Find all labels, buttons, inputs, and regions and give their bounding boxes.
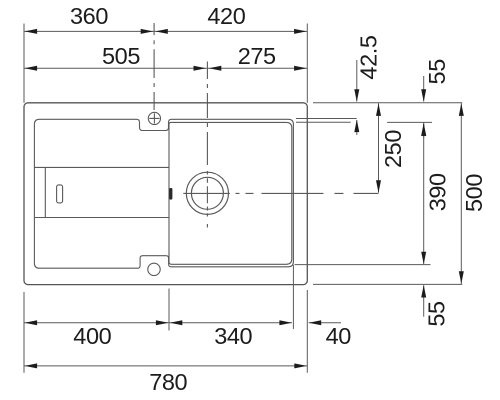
- centerline tap vertical: [153, 23, 155, 110]
- drain inner circle: [191, 177, 223, 209]
- arrow 390 bottom: [421, 252, 426, 265]
- tap hole circle: [148, 112, 160, 124]
- arrow 390 top: [421, 123, 426, 135]
- extension line bowl left bottom: [168, 289, 170, 331]
- arrow 360 right: [141, 29, 154, 34]
- arrow 500 bottom: [459, 271, 464, 284]
- arrow 340 left: [170, 320, 183, 325]
- extension line bowl bottom right: [295, 264, 431, 266]
- dimension line 55 top: [423, 76, 425, 138]
- inner depression edge with tap and hole notches: [34, 119, 293, 268]
- dimension line 505/275: [24, 67, 307, 69]
- drainer board bottom line: [34, 217, 169, 219]
- arrow 275 left: [209, 66, 222, 71]
- dimension line 780: [24, 365, 307, 367]
- extension line bowl top right: [296, 121, 432, 123]
- arrow 505 right: [194, 66, 207, 71]
- arrow 420 right: [294, 29, 307, 34]
- svg-text:505: 505: [102, 43, 140, 69]
- arrow 420 left: [155, 29, 168, 34]
- arrow 780 right: [294, 363, 307, 368]
- svg-text:420: 420: [207, 3, 245, 29]
- tap hole cross: [149, 113, 159, 123]
- drainer board left edge: [44, 167, 46, 217]
- arrow 400 left: [25, 320, 37, 325]
- drainer board top line: [34, 166, 169, 168]
- svg-text:55: 55: [423, 301, 449, 327]
- extension line bowl right bottom: [292, 265, 294, 329]
- drainer board slot: [57, 185, 63, 203]
- extension line top edge right: [313, 102, 462, 104]
- svg-text:55: 55: [424, 59, 450, 85]
- centerline bowl vertical: [206, 62, 208, 228]
- svg-text:42.5: 42.5: [356, 35, 382, 79]
- svg-text:780: 780: [149, 369, 187, 395]
- dimension line 390: [423, 123, 425, 264]
- svg-text:275: 275: [238, 43, 276, 69]
- svg-text:390: 390: [424, 173, 450, 211]
- extension line left bottom: [23, 292, 25, 373]
- svg-text:250: 250: [380, 130, 406, 168]
- svg-text:400: 400: [73, 323, 111, 349]
- bottom hole circle: [148, 263, 160, 275]
- bowl rim: [169, 122, 292, 264]
- arrow 42.5 lower: [354, 120, 359, 133]
- dimension line 500: [460, 103, 462, 284]
- arrow 55top lower: [421, 123, 426, 135]
- dimension line 40 tail: [309, 322, 341, 324]
- dimension line 42.5: [356, 60, 358, 135]
- arrow 505 left: [25, 66, 37, 71]
- arrow 340 right: [279, 320, 292, 325]
- arrow 275 right: [294, 66, 307, 71]
- outer sink outline: [24, 103, 307, 285]
- centerline bowl horizontal: [183, 192, 378, 194]
- arrow 42.5 upper: [354, 89, 359, 102]
- drain outer circle: [186, 172, 228, 214]
- svg-text:360: 360: [70, 3, 108, 29]
- arrow 780 left: [25, 363, 37, 368]
- arrow 250 bottom: [376, 180, 381, 193]
- svg-text:40: 40: [326, 323, 352, 349]
- arrow 400 right: [156, 320, 169, 325]
- extension line right bottom: [306, 290, 308, 373]
- arrow 500 top: [459, 103, 464, 116]
- extension line left top: [23, 24, 25, 103]
- svg-text:500: 500: [461, 174, 487, 212]
- arrow 250 top: [376, 103, 381, 116]
- arrow 55bottom: [421, 285, 426, 298]
- dimension line 55 bottom: [423, 285, 425, 317]
- arrow 40: [309, 320, 322, 325]
- extension line right top: [306, 24, 308, 103]
- arrow 360 left: [25, 29, 37, 34]
- dimension line 360/420: [24, 30, 307, 32]
- extension line bottom edge right: [313, 283, 462, 285]
- dimension line 400/340: [24, 322, 292, 324]
- svg-text:340: 340: [214, 323, 252, 349]
- arrow 55top upper: [421, 89, 426, 102]
- extension line tap center right: [296, 118, 357, 120]
- dimension line 250: [378, 103, 380, 192]
- overflow slot on bowl left edge: [169, 188, 172, 200]
